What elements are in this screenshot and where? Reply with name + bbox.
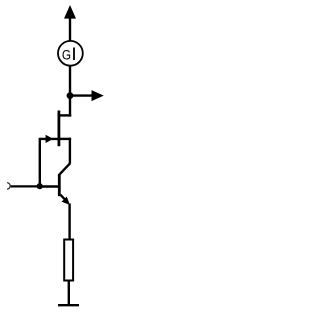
node base (junction dot) (37, 183, 43, 189)
jfet channel bar (58, 111, 61, 147)
wire input to base node (11, 185, 40, 187)
wire node to JFET drain (58, 96, 71, 117)
transistor base bar (58, 174, 61, 196)
jfet source lead (59, 138, 71, 164)
current source G (58, 41, 83, 66)
resistor (box) (64, 240, 73, 281)
node output (junction dot) (67, 92, 74, 99)
input terminal (7, 183, 10, 189)
wire resistor to ground (68, 281, 70, 305)
svg-text:G: G (62, 46, 71, 62)
output arrow (right) (70, 90, 104, 101)
wire current source to output node (69, 66, 71, 96)
wire base lead (40, 185, 59, 187)
wire emitter to resistor (68, 204, 70, 241)
supply arrow (up) (64, 5, 76, 42)
wire gate to base node (39, 138, 41, 188)
jfet gate lead with arrow (40, 135, 58, 143)
ground (58, 304, 79, 306)
transistor emitter lead with arrow (61, 195, 70, 205)
transistor collector lead (60, 163, 70, 174)
